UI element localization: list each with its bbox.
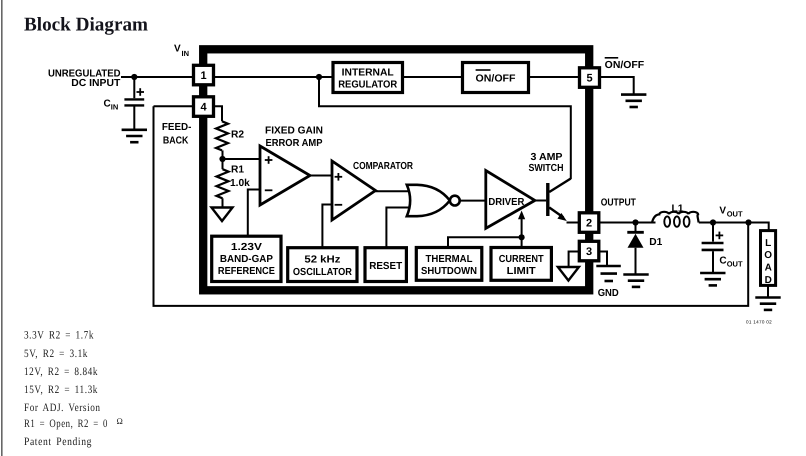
- label ON/OFF (pin 5): [605, 58, 645, 71]
- svg-text:ON/OFF: ON/OFF: [476, 73, 516, 84]
- transistor Q1 emitter: [549, 208, 563, 218]
- svg-text:2: 2: [586, 218, 592, 230]
- inductor L1 coils: [652, 212, 699, 223]
- svg-text:Patent Pending: Patent Pending: [24, 436, 92, 448]
- svg-text:15V, R2 = 11.3k: 15V, R2 = 11.3k: [24, 384, 98, 396]
- svg-text:3.3V R2 = 1.7k: 3.3V R2 = 1.7k: [24, 330, 94, 342]
- ground (below C_IN): [122, 130, 147, 142]
- wire pin 3 right to ground: [598, 252, 607, 266]
- ground (below D1): [623, 275, 648, 287]
- label V_IN: [174, 44, 189, 58]
- svg-text:1.23V: 1.23V: [231, 242, 262, 253]
- wire R2 to R1 through node: [222, 150, 224, 169]
- comparator + input sign: [335, 173, 343, 181]
- op-amp comparator triangle: [332, 161, 376, 220]
- label FIXED GAIN ERROR AMP: [265, 126, 323, 149]
- driver input arrow head: [518, 211, 525, 220]
- svg-text:IN: IN: [182, 49, 190, 58]
- svg-text:4: 4: [200, 102, 207, 114]
- reset box: [365, 248, 406, 282]
- svg-text:COMPARATOR: COMPARATOR: [353, 161, 414, 172]
- driver amp triangle: [486, 171, 535, 229]
- label C_OUT: [719, 256, 743, 269]
- wire pin 3 left to ground arrow: [569, 252, 580, 268]
- svg-text:O: O: [764, 250, 772, 261]
- svg-text:IN: IN: [111, 102, 119, 111]
- svg-text:L1: L1: [672, 204, 684, 215]
- pin 5 box: [580, 68, 600, 88]
- wire node to error amp + input: [223, 158, 261, 160]
- wire inductor to Vout and load: [699, 223, 769, 231]
- svg-text:Ω: Ω: [117, 416, 124, 426]
- wire input node to Cin: [133, 77, 135, 98]
- svg-text:OSCILLATOR: OSCILLATOR: [293, 267, 353, 278]
- node dot (unregulated input): [131, 74, 137, 80]
- wire thermal shutdown / current limit bus: [448, 237, 522, 247]
- svg-text:A: A: [765, 263, 772, 274]
- ground (below LOAD): [755, 298, 780, 310]
- svg-text:OUTPUT: OUTPUT: [601, 197, 637, 208]
- label V_OUT: [719, 206, 743, 219]
- NOR gate output bubble: [450, 196, 460, 206]
- wire input to pin 1 and internal regulator: [121, 76, 333, 78]
- capacitor C_IN plus sign: [137, 88, 145, 96]
- wire emitter to pin 2 and inductor: [567, 222, 656, 224]
- diode D1 triangle: [628, 234, 644, 248]
- pin 4 box: [194, 97, 214, 117]
- svg-text:D: D: [765, 275, 772, 286]
- note R1 = Open, R2 = 0 ohm: [24, 416, 124, 430]
- wire node to Cout: [712, 223, 714, 242]
- ground arrow (below R1): [212, 208, 233, 222]
- transistor Q1 base bar: [546, 183, 549, 216]
- svg-text:GND: GND: [598, 288, 619, 299]
- svg-text:OUT: OUT: [727, 260, 743, 269]
- wire current limit node up to driver: [521, 219, 523, 238]
- ground (on/off pin 5): [621, 95, 646, 107]
- svg-text:RESET: RESET: [369, 261, 403, 272]
- svg-text:BACK: BACK: [163, 135, 189, 146]
- wire reset to NOR gate lower input: [386, 208, 409, 248]
- resistor R2: [216, 121, 228, 150]
- wire Cout to ground: [712, 251, 714, 272]
- current limit box: [491, 248, 551, 281]
- capacitor C_IN plates: [124, 99, 144, 105]
- label UNREGULATED DC INPUT: [48, 69, 121, 89]
- IC chip outline (thick border): [203, 49, 589, 290]
- on/off block box: [463, 63, 529, 93]
- svg-text:THERMAL: THERMAL: [426, 254, 473, 265]
- wire comparator - input to oscillator: [322, 205, 332, 248]
- svg-text:LIMIT: LIMIT: [507, 266, 537, 277]
- wire load to ground: [767, 285, 769, 296]
- svg-text:SHUTDOWN: SHUTDOWN: [421, 266, 477, 277]
- svg-text:1.0k: 1.0k: [230, 178, 250, 189]
- thermal shutdown box: [416, 248, 482, 281]
- svg-text:V: V: [719, 206, 726, 217]
- wire internal regulator to on/off block: [402, 76, 462, 78]
- svg-text:R1: R1: [231, 164, 244, 175]
- 1.23V band-gap reference box: [212, 236, 281, 281]
- svg-text:3: 3: [586, 246, 592, 258]
- diode D1 cathode bar: [627, 231, 644, 234]
- wire feedback left vertical to pin 4: [154, 106, 223, 121]
- resistor R1: [217, 169, 229, 198]
- svg-text:CURRENT: CURRENT: [499, 254, 545, 265]
- svg-text:For ADJ. Version: For ADJ. Version: [24, 402, 101, 414]
- ground arrow (left of pin 3): [558, 267, 579, 281]
- wire error amp - input to band-gap reference: [248, 190, 260, 237]
- wire driver to transistor base: [535, 200, 546, 202]
- svg-text:R2: R2: [231, 129, 244, 140]
- 52 kHz oscillator box: [288, 248, 357, 282]
- node dot (current limit / driver): [519, 234, 525, 240]
- node dot (R1/R2 divider): [219, 156, 225, 162]
- svg-text:DRIVER: DRIVER: [488, 197, 525, 208]
- page left border line: [1, 0, 3, 456]
- svg-text:REFERENCE: REFERENCE: [218, 266, 275, 277]
- wire feedback loop bottom: [154, 106, 749, 306]
- transistor Q1 emitter arrow: [557, 213, 566, 221]
- svg-text:V: V: [174, 44, 181, 55]
- wire NOR output to driver: [460, 200, 486, 202]
- op-amp error amp triangle: [260, 146, 310, 205]
- pin 1 box: [194, 65, 214, 85]
- node dot (Vin bus): [316, 74, 322, 80]
- error amp + input sign: [265, 156, 273, 164]
- svg-text:Block Diagram: Block Diagram: [24, 14, 148, 35]
- svg-text:REGULATOR: REGULATOR: [338, 79, 398, 90]
- comparator - input sign: [335, 204, 343, 206]
- svg-text:FIXED GAIN: FIXED GAIN: [265, 126, 323, 137]
- ground (pin 3 GND): [596, 266, 621, 281]
- pin 2 box: [579, 213, 599, 233]
- capacitor C_OUT plates: [702, 243, 724, 250]
- label 3 AMP SWITCH: [529, 152, 564, 174]
- transistor Q1 collector: [549, 179, 571, 193]
- svg-text:3 AMP: 3 AMP: [531, 152, 563, 163]
- svg-text:52 kHz: 52 kHz: [304, 255, 340, 266]
- svg-text:01 1470 02: 01 1470 02: [746, 320, 772, 325]
- svg-text:OUT: OUT: [727, 210, 743, 219]
- svg-text:5: 5: [586, 73, 592, 85]
- wire on/off block to pin 5 and out to ground: [529, 77, 634, 94]
- wire Cin to ground: [133, 107, 135, 130]
- pin 3 box: [579, 241, 599, 260]
- wire R1 to ground arrow: [222, 198, 224, 207]
- node dot (C_OUT node): [710, 219, 716, 225]
- wire D1 to ground: [635, 248, 637, 274]
- label C_IN: [104, 98, 119, 111]
- NOR gate U1: [407, 185, 450, 216]
- wire comparator output to NOR gate: [376, 190, 410, 192]
- capacitor C_OUT plus sign: [716, 232, 724, 240]
- svg-text:BAND-GAP: BAND-GAP: [220, 254, 273, 265]
- ground (below C_OUT): [700, 273, 725, 285]
- internal regulator box: [333, 63, 403, 93]
- svg-text:C: C: [719, 256, 726, 267]
- node dot (V_OUT feedback node): [745, 219, 751, 225]
- svg-text:R1 = Open, R2 = 0: R1 = Open, R2 = 0: [24, 418, 108, 430]
- svg-text:C: C: [104, 98, 111, 109]
- svg-text:1: 1: [200, 70, 206, 82]
- svg-text:L: L: [765, 238, 771, 249]
- svg-text:D1: D1: [649, 237, 662, 248]
- svg-text:ON/OFF: ON/OFF: [605, 60, 645, 71]
- svg-text:ERROR AMP: ERROR AMP: [266, 138, 323, 149]
- wire Vin node down and across to switch collector: [319, 77, 571, 179]
- label FEEDBACK: [162, 122, 192, 147]
- svg-text:FEED-: FEED-: [162, 122, 192, 133]
- wire node to D1: [635, 223, 637, 232]
- node dot (D1 catch node): [632, 219, 638, 225]
- svg-text:SWITCH: SWITCH: [529, 163, 564, 174]
- svg-text:12V, R2 = 8.84k: 12V, R2 = 8.84k: [24, 366, 98, 378]
- wire error amp output to comparator: [310, 175, 332, 177]
- load box: [761, 231, 776, 286]
- error amp - input sign: [265, 189, 273, 191]
- svg-text:DC INPUT: DC INPUT: [71, 78, 121, 89]
- svg-text:5V, R2 = 3.1k: 5V, R2 = 3.1k: [24, 348, 88, 360]
- svg-text:INTERNAL: INTERNAL: [342, 68, 394, 79]
